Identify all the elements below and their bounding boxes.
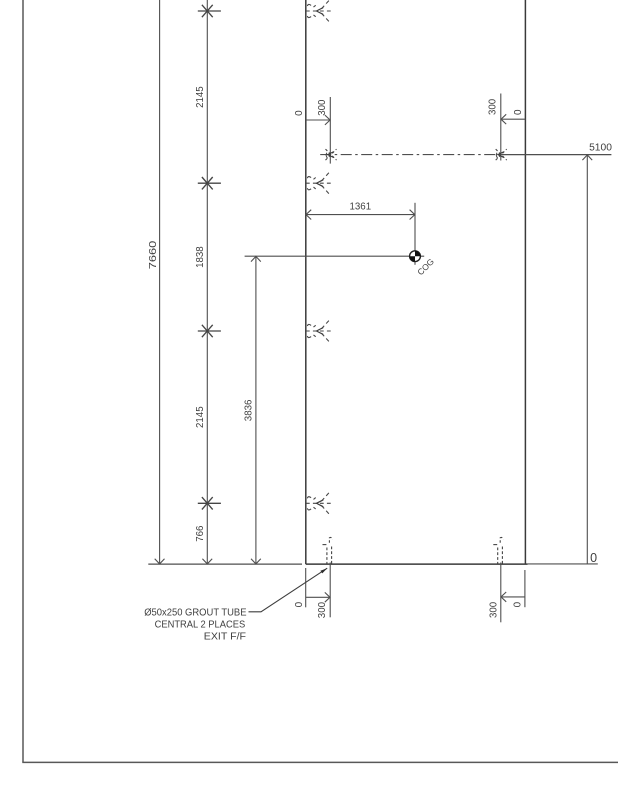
svg-text:766: 766 — [195, 525, 206, 542]
svg-text:0: 0 — [512, 601, 523, 607]
svg-text:2145: 2145 — [195, 406, 206, 428]
bottom-left extension 300 — [329, 563, 331, 618]
dimension 7660 line — [159, 0, 161, 564]
chain marker row 3 — [198, 330, 221, 332]
edge lifter row 4 — [306, 502, 331, 504]
panel bottom edge — [306, 563, 528, 565]
bottom-left 300 dim line — [306, 596, 331, 598]
edge lifter row 3 — [306, 330, 331, 332]
svg-text:0: 0 — [294, 601, 305, 607]
grout tube right — [497, 548, 499, 564]
bottom-right 300 dim line — [501, 596, 525, 598]
chain marker row 4 — [198, 502, 221, 504]
svg-text:300: 300 — [488, 601, 499, 618]
svg-text:300: 300 — [488, 98, 499, 115]
top-right 300 dim line — [501, 118, 526, 120]
dimension 1361 line — [306, 214, 415, 216]
lifting line solid extension right — [501, 154, 611, 156]
svg-text:Ø50x250 GROUT TUBE: Ø50x250 GROUT TUBE — [144, 607, 246, 619]
top-left 300 dim line — [306, 119, 331, 121]
svg-text:300: 300 — [317, 602, 328, 619]
dimension 5100 line — [586, 155, 588, 564]
top-left extension line — [329, 97, 331, 164]
panel right edge — [524, 0, 526, 564]
dimension 3836 line — [255, 256, 257, 564]
grout tube left — [326, 548, 328, 564]
panel left edge — [305, 0, 307, 564]
edge lifter row 2 — [306, 182, 331, 184]
bottom-right extension 300 — [500, 563, 502, 623]
svg-text:300: 300 — [317, 99, 328, 116]
sheet border bottom — [22, 761, 618, 763]
bottom-right extension 0 — [524, 570, 526, 607]
lifting anchor left — [326, 149, 337, 160]
chain marker row 1 — [198, 10, 221, 12]
COG horizontal line — [245, 255, 425, 257]
bottom datum line — [148, 563, 302, 565]
svg-text:7660: 7660 — [148, 240, 159, 269]
lifting anchor right — [496, 149, 507, 160]
leader arrowhead — [320, 568, 327, 573]
lifting line dash-dot — [320, 154, 501, 156]
chain dimension line — [206, 0, 208, 564]
svg-text:1361: 1361 — [350, 202, 372, 213]
svg-text:5100: 5100 — [589, 143, 612, 154]
bottom-left extension 0 — [305, 568, 307, 607]
edge lifter row 1 — [306, 10, 331, 12]
svg-text:2145: 2145 — [195, 86, 206, 108]
COG vertical line — [414, 203, 416, 265]
chain marker row 2 — [198, 182, 221, 184]
grout tube leader line — [249, 568, 328, 612]
svg-text:EXIT F/F: EXIT F/F — [204, 631, 246, 643]
bottom datum extension right — [528, 563, 598, 565]
COG symbol — [410, 251, 421, 262]
svg-text:CENTRAL 2 PLACES: CENTRAL 2 PLACES — [155, 619, 246, 631]
sheet border left — [22, 0, 24, 762]
svg-text:0: 0 — [513, 109, 524, 115]
svg-text:0: 0 — [590, 551, 597, 565]
svg-text:0: 0 — [294, 110, 305, 116]
svg-text:1838: 1838 — [195, 246, 206, 268]
svg-text:3836: 3836 — [244, 399, 255, 421]
top-right extension line — [500, 94, 502, 161]
